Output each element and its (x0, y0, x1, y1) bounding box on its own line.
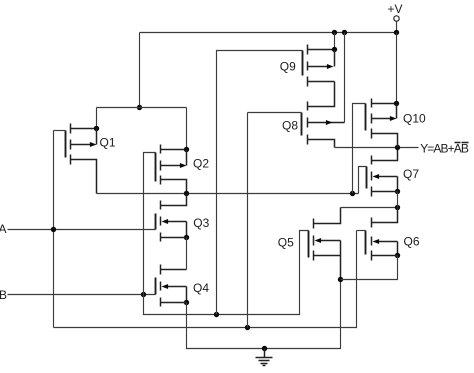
transistor Q9 gate bar (302, 51, 304, 76)
svg-text:B: B (0, 288, 7, 302)
wire Q1/Q2 drain node horizontal (97, 107, 187, 109)
transistor Q9 body tie (334, 50, 336, 67)
transistor Q8 drain stub (308, 82, 335, 107)
wire node B to Q9 gate (217, 51, 303, 315)
junction dot rail / Q9 drain branch (332, 30, 337, 35)
transistor Q5 gate bar (308, 231, 310, 258)
wire Q7 gate staple (359, 167, 367, 194)
transistor Q5 source stub (314, 255, 341, 257)
svg-text:Q2: Q2 (193, 156, 209, 170)
transistor Q7 drain stub (372, 148, 398, 161)
junction dot input A (51, 227, 56, 232)
wire node A vertical (53, 131, 55, 328)
+V supply terminal (394, 16, 399, 21)
transistor Q1 body tie (96, 129, 98, 145)
wire +V rail (140, 32, 397, 34)
transistor Q4 body tie (186, 287, 188, 303)
svg-text:Q5: Q5 (278, 236, 294, 250)
svg-text:Q3: Q3 (193, 216, 209, 230)
transistor Q3 gate bar (155, 214, 157, 230)
transistor Q9 drain stub (308, 49, 335, 51)
transistor Q1 source stub (71, 160, 97, 194)
junction dot rail / Q8 body branch (342, 30, 347, 35)
transistor Q4 drain stub (161, 269, 187, 271)
wire rail to Q8 body (344, 33, 346, 123)
svg-text:Q7: Q7 (403, 167, 419, 181)
wire internal node N1 (Q1/Q2 source to Q3 drain, Q7 and Q10 gates) (97, 193, 359, 195)
transistor Q7 channel dashes (371, 156, 373, 197)
wire input A (8, 229, 156, 231)
wire down to Q1 drain (96, 108, 98, 129)
transistor Q4 source stub (161, 302, 187, 304)
transistor Q4 gate bar (155, 278, 157, 295)
transistor Q5 body/source tie (340, 241, 342, 280)
wire Q6 gate staple top (357, 230, 366, 232)
transistor Q10 drain stub (372, 103, 397, 105)
wire Q7 source to N2 (397, 192, 399, 208)
transistor Q3 body lead with arrow (167, 221, 187, 223)
ground symbol (264, 349, 266, 358)
transistor Q9 channel dashes (307, 45, 309, 87)
junction dot Q4 source/body (184, 300, 189, 305)
svg-text:A: A (0, 222, 7, 236)
wire node A bottom run to Q6 gate (54, 231, 357, 328)
transistor Q9 body lead with arrow (308, 66, 330, 68)
transistor Q6 source stub (372, 255, 398, 257)
svg-text:Q9: Q9 (280, 60, 296, 74)
transistor Q1 gate bar (65, 131, 67, 158)
wire input B (8, 294, 156, 296)
wire node B down run to Q5 gate (144, 231, 309, 315)
transistor Q6 drain stub (372, 208, 398, 223)
wire down to Q2 drain (186, 108, 188, 150)
junction dot Q9 drain/body (332, 47, 337, 52)
junction dot rail / Q10 branch (394, 30, 399, 35)
transistor Q6 channel dashes (371, 218, 373, 261)
svg-text:Q8: Q8 (282, 118, 298, 132)
transistor Q5 drain stub (314, 208, 341, 224)
transistor Q2 drain stub (161, 149, 187, 151)
transistor Q2 body tie (186, 150, 188, 166)
wire +V terminal to rail (396, 22, 398, 33)
junction dot Q10 drain/body (394, 101, 399, 106)
junction dot Y / Q10 source / Q7 drain (395, 145, 400, 150)
transistor Q1 body lead with arrow (71, 144, 92, 146)
transistor Q8 gate bar (301, 113, 303, 136)
transistor Q10 body lead with arrow (372, 118, 392, 120)
transistor Q6 body lead with arrow (377, 241, 398, 243)
transistor Q2 body lead with arrow (161, 165, 182, 167)
wire Q8 gate to node A (247, 113, 249, 328)
wire N2 node horizontal (Q5 drain / Q7 source / Q6 drain) (341, 207, 398, 209)
transistor Q3 body tie (186, 222, 188, 238)
junction dot N1 at Q2/Q3 (184, 191, 189, 196)
svg-text:+V: +V (388, 2, 403, 16)
junction dot Q1/Q2 drain node (137, 105, 142, 110)
svg-text:Y=AB+AB: Y=AB+AB (420, 141, 469, 155)
wire Q8 gate lead (248, 112, 302, 114)
junction dot ground (262, 346, 267, 351)
transistor Q3 source stub (161, 237, 187, 239)
junction dot N2 (395, 205, 400, 210)
transistor Q4 body lead with arrow (167, 286, 187, 288)
svg-text:Q10: Q10 (403, 111, 426, 125)
transistor Q10 channel dashes (371, 99, 373, 139)
junction dot N1 / Q10 gate (350, 191, 355, 196)
wire rail left drop (139, 33, 141, 108)
junction dot Q1 drain/body (94, 126, 99, 131)
transistor Q4 channel dashes (160, 265, 162, 307)
overline for B-bar (462, 142, 469, 144)
wire Q4 source to ground run (187, 280, 341, 349)
junction dot node A / Q8 gate (245, 325, 250, 330)
wire Q10 gate staple (353, 104, 366, 194)
transistor Q7 source stub (372, 191, 398, 193)
svg-text:Q1: Q1 (100, 136, 116, 150)
transistor Q10 gate bar (365, 104, 367, 131)
transistor Q7 gate bar (366, 167, 368, 189)
transistor Q7 body tie (397, 177, 399, 192)
wire rail to Q10 drain (396, 33, 398, 104)
transistor Q5 channel dashes (313, 219, 315, 261)
junction dot Q2 drain/body (184, 147, 189, 152)
transistor Q7 body lead with arrow (377, 176, 398, 178)
transistor Q1 channel dashes (70, 124, 72, 165)
overline for A-bar (455, 142, 461, 144)
transistor Q3 channel dashes (160, 201, 162, 242)
junction dot node B / Q9 gate (214, 312, 219, 317)
svg-text:Q4: Q4 (193, 281, 209, 295)
transistor Q9 source stub (308, 81, 335, 83)
transistor Q8 channel dashes (307, 102, 309, 145)
wire Q1 gate lead (54, 130, 66, 132)
transistor Q8 source stub (308, 140, 335, 148)
svg-text:Q6: Q6 (404, 234, 420, 248)
junction dot Q6 source/body (395, 253, 400, 258)
transistor Q10 body tie (396, 104, 398, 119)
wire output Y (335, 147, 419, 149)
transistor Q5 body lead with arrow (320, 240, 341, 242)
wire Q6 source to Q5/Q6 source node (341, 256, 398, 280)
transistor Q2 gate bar (155, 153, 157, 182)
wire rail to Q9 drain (334, 33, 336, 50)
junction dot Q7 source/body (395, 189, 400, 194)
transistor Q8 body lead with arrow (308, 122, 345, 124)
wire Q3 source to Q4 drain (186, 238, 188, 270)
transistor Q6 body tie (397, 242, 399, 256)
transistor Q1 drain stub (71, 128, 97, 130)
wire node B up to Q2 gate (144, 153, 156, 295)
transistor Q2 source stub (161, 180, 187, 194)
junction dot input B (141, 292, 146, 297)
transistor Q2 channel dashes (160, 145, 162, 185)
transistor Q10 source stub (372, 134, 398, 148)
transistor Q3 drain stub (161, 194, 187, 206)
junction dot Q3 source/body (184, 235, 189, 240)
transistor Q6 gate bar (365, 231, 367, 255)
junction dot Q5/Q6 source node (338, 277, 343, 282)
